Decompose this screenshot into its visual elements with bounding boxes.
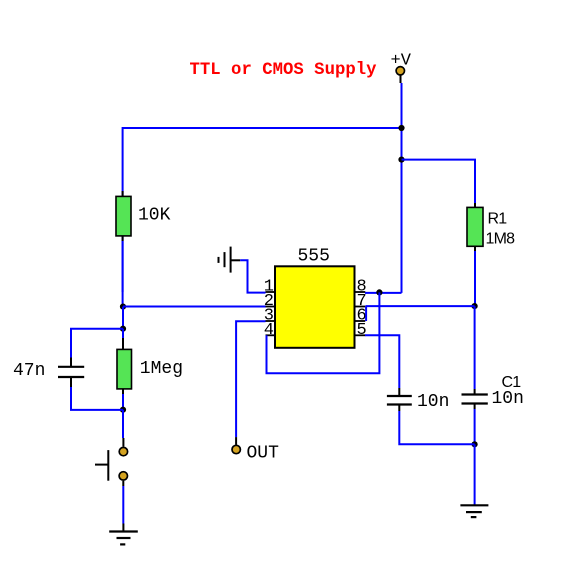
svg-text:47n: 47n [13,361,45,381]
wire pin3 to OUT [236,321,265,437]
svg-text:1Meg: 1Meg [140,359,183,379]
switch pad top [119,447,127,455]
wire B to 47n [71,329,123,358]
wire J4 to ground [474,444,476,505]
wire pin4 loop [267,292,380,373]
pin stub 4 [266,334,275,336]
resistor 1Meg stub bottom [122,389,124,394]
resistor 10K stub bottom [122,236,124,241]
node OUT pad [232,445,240,453]
wire J3 to C1 [474,306,476,389]
pin stub 5 [355,334,366,336]
svg-text:5: 5 [357,321,367,340]
capacitor 10n stub top [398,388,400,396]
wire 47n to junction C [71,387,123,410]
capacitor 47n stub top [70,358,72,367]
resistor 10K [116,196,131,236]
junction A [120,304,126,310]
wire ground to pin1 [240,260,265,292]
capacitor C1 stub bottom [474,404,476,410]
wire +V vertical [401,83,403,293]
wire pin5 to capacitor [365,335,399,388]
capacitor C1 stub top [474,389,476,395]
resistor 1Meg [117,349,132,389]
junction J4 [472,441,478,447]
wire +V stub [400,76,402,84]
junction J2 [398,157,404,163]
svg-text:OUT: OUT [247,443,280,463]
svg-text:4: 4 [264,321,274,340]
ground right [460,505,488,517]
wire 1Meg to junction C [122,394,124,410]
switch pad bottom [119,472,127,480]
capacitor 47n stub bottom [70,377,72,387]
pin stub 6 [355,320,366,322]
wire pin2 horizontal [123,306,266,308]
resistor 10K stub top [122,191,124,196]
switch actuator [95,450,108,481]
junction J1 [398,125,404,131]
node OUT stub [235,437,237,445]
ground symbol pin1 [219,247,241,273]
wire C to switch [122,410,124,438]
capacitor C1 [462,395,488,404]
svg-text:10n: 10n [417,392,449,412]
capacitor 10n left [387,396,412,405]
pin stub 7 [355,306,366,308]
ground left [109,532,138,545]
pin stub 1 [266,291,275,293]
junction pin8 [376,289,382,295]
wire C1 to J4 [474,409,476,444]
resistor R1 [467,207,483,246]
switch stub bottom [122,481,124,486]
junction C [120,407,126,413]
ground left stub [122,524,124,532]
ic U1 555 body [275,266,355,348]
wire pin7 to J3 [366,305,475,307]
junction J3 [472,303,478,309]
switch stub top [122,438,124,447]
svg-text:555: 555 [298,247,330,267]
resistor R1 stub top [474,203,476,207]
svg-text:R1: R1 [488,211,508,228]
pin stub 2 [266,306,275,308]
node +V pad [396,67,404,75]
pin stub 3 [266,320,275,322]
wire capacitor to J4 [399,411,474,444]
junction B [120,326,126,332]
resistor 1Meg stub top [122,338,124,349]
capacitor 10n stub bottom [398,405,400,412]
wire A to B [122,307,124,329]
wire R1 to J3 [474,251,476,306]
resistor R1 stub bottom [474,246,476,251]
svg-text:TTL or CMOS Supply: TTL or CMOS Supply [190,61,378,80]
wire 10K to junction A [122,241,124,307]
pin stub 8 [355,291,366,293]
svg-text:1M8: 1M8 [486,231,516,248]
wire top horizontal [123,128,402,292]
wire pin6 up [365,306,367,321]
wire J2 to R1 top [402,160,476,203]
wire switch to ground [122,486,124,524]
svg-text:10K: 10K [138,206,171,226]
svg-text:10n: 10n [492,389,524,409]
wire B to 1Meg [122,329,124,338]
wire pin8 horizontal [365,292,402,294]
capacitor 47n [58,367,84,377]
